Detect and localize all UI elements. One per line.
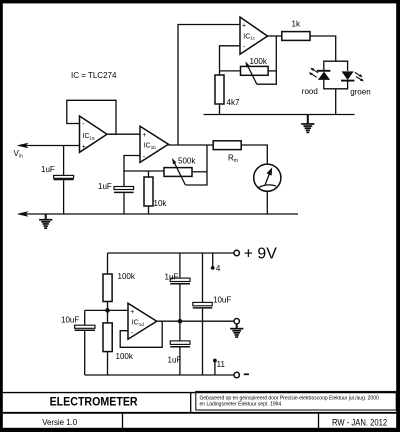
wire IC1b output line bbox=[168, 144, 213, 146]
capacitor 10uF left plates bbox=[75, 325, 95, 330]
wire 1uF lower top lead bbox=[179, 321, 181, 341]
versie cell divider bbox=[122, 413, 124, 428]
top ground rail bbox=[204, 114, 355, 116]
wire IC1b - input to feedback node bbox=[124, 156, 164, 172]
capacitor 1uF lower plates bbox=[170, 341, 190, 347]
svg-text:Versie 1.0: Versie 1.0 bbox=[42, 417, 77, 427]
wire 10k bottom lead bbox=[148, 206, 150, 214]
wire LED block to ground rail bbox=[335, 89, 337, 115]
capacitor C1 1uF plates bbox=[54, 175, 74, 179]
wire Rm to meter bbox=[241, 145, 267, 164]
wire Vin to IC1a + input bbox=[25, 145, 80, 147]
potentiometer 100k wiper arrow bbox=[245, 61, 256, 84]
LED groen emission arrows bbox=[355, 72, 364, 81]
svg-text:1k: 1k bbox=[292, 20, 301, 29]
op-amp IC1b bbox=[140, 126, 168, 162]
svg-text:10uF: 10uF bbox=[61, 316, 79, 325]
wire node to 100k pot left bbox=[220, 70, 241, 72]
note box bbox=[196, 391, 396, 410]
wire 4k7 bottom lead bbox=[219, 104, 221, 115]
negative terminal circle bbox=[234, 372, 239, 377]
ground symbol left bbox=[39, 214, 52, 229]
svg-text:+: + bbox=[130, 309, 134, 316]
svg-text:+ 9V: + 9V bbox=[244, 246, 277, 263]
wire Vref node to IC1d + input bbox=[85, 309, 128, 311]
wire IC1a output to IC1b + input bbox=[107, 133, 140, 135]
meter M1 bbox=[254, 164, 281, 191]
wire 10uF right bottom lead bbox=[202, 309, 204, 375]
capacitor 10uF right plates bbox=[193, 302, 212, 308]
titleblock cell divider vertical bbox=[190, 393, 192, 413]
svg-text:10uF: 10uF bbox=[213, 295, 231, 304]
wire IC1d feedback loop bbox=[120, 321, 162, 347]
wire 1uF C2 top lead bbox=[123, 171, 125, 187]
label minus bbox=[244, 373, 249, 375]
pin 11 stub bbox=[213, 359, 217, 375]
date cell divider bbox=[318, 413, 320, 428]
svg-text:1uF: 1uF bbox=[98, 182, 112, 191]
resistor 100k upper bbox=[103, 274, 112, 302]
op-amp IC1c bbox=[240, 17, 268, 54]
svg-text:11: 11 bbox=[217, 360, 226, 369]
resistor 10k bbox=[144, 177, 153, 206]
wire 10uF left top lead bbox=[84, 310, 86, 325]
ground rail terminal arrow bbox=[18, 212, 28, 216]
+9V terminal circle bbox=[234, 250, 239, 255]
LED groen (green, cathode down) bbox=[341, 71, 354, 80]
svg-text:1uF: 1uF bbox=[41, 165, 55, 174]
border frame bbox=[0, 0, 400, 3]
op-amp IC1a bbox=[80, 116, 108, 152]
wire wiper to output branch bbox=[257, 36, 277, 84]
svg-text:1uF: 1uF bbox=[165, 272, 179, 281]
resistor 1k bbox=[282, 32, 310, 41]
node Vref junction dot bbox=[105, 308, 110, 313]
resistor 4k7 bbox=[215, 75, 224, 104]
negative supply rail bbox=[85, 374, 234, 376]
node virtual ground junction dot bbox=[178, 319, 183, 324]
wire 1uF C1 bottom lead bbox=[63, 180, 65, 214]
input terminal arrow Vin bbox=[18, 143, 28, 147]
wire 10uF left bottom lead bbox=[84, 331, 86, 375]
virtual ground terminal circle bbox=[234, 319, 239, 324]
svg-text:100k: 100k bbox=[116, 352, 134, 361]
LED rood emission arrows bbox=[309, 68, 318, 78]
LED block frame bbox=[324, 61, 348, 89]
wire 500k right terminal bbox=[192, 171, 207, 173]
wire 100k right terminal bbox=[268, 70, 276, 72]
svg-text:+: + bbox=[142, 132, 146, 139]
capacitor 1uF upper plates bbox=[170, 278, 190, 284]
svg-text:10k: 10k bbox=[154, 199, 168, 208]
wire 1k to LED block bbox=[310, 36, 336, 61]
svg-text:groen: groen bbox=[350, 87, 370, 96]
wire 10k top lead bbox=[148, 171, 150, 177]
svg-text:IC = TLC274: IC = TLC274 bbox=[71, 71, 117, 80]
wire 1uF upper bottom lead bbox=[179, 284, 181, 321]
svg-text:100k: 100k bbox=[118, 272, 136, 281]
wire 10uF right top lead bbox=[202, 253, 204, 303]
wire IC1d output virtual ground line bbox=[157, 320, 234, 322]
svg-text:RW - JAN. 2012: RW - JAN. 2012 bbox=[332, 417, 387, 428]
svg-text:100k: 100k bbox=[250, 57, 268, 66]
wire IC1c - input to 4k7 node bbox=[220, 46, 241, 75]
wire 1uF top lead from rail bbox=[179, 253, 181, 278]
wire 100k upper bottom lead bbox=[107, 302, 109, 311]
svg-text:+: + bbox=[242, 23, 246, 30]
wire 1uF C2 bottom lead bbox=[123, 193, 125, 214]
wire IC1c output to 1k bbox=[268, 35, 282, 37]
wire 1uF C1 top lead bbox=[63, 146, 65, 176]
ground rail wire bbox=[25, 213, 298, 215]
svg-text:500k: 500k bbox=[178, 157, 196, 166]
ground symbol virtual ground bbox=[230, 324, 243, 338]
svg-text:ELECTROMETER: ELECTROMETER bbox=[50, 394, 138, 408]
resistor Rm bbox=[213, 141, 241, 150]
potentiometer 100k body bbox=[241, 66, 269, 75]
wire 1uF lower bottom lead bbox=[179, 348, 181, 376]
potentiometer 500k wiper arrow bbox=[172, 158, 185, 185]
ground symbol top bbox=[301, 115, 314, 134]
wire 500k wiper to output branch bbox=[185, 145, 207, 185]
titleblock top line bbox=[3, 392, 396, 394]
wire IC1a feedback loop bbox=[67, 100, 116, 134]
svg-text:+: + bbox=[82, 144, 86, 151]
resistor 100k lower bbox=[103, 323, 112, 352]
op-amp IC1d bbox=[128, 303, 157, 339]
svg-text:rood: rood bbox=[302, 87, 318, 96]
svg-text:4: 4 bbox=[216, 264, 221, 273]
svg-text:Gebaseerd op en geinspireerd d: Gebaseerd op en geinspireerd door Precis… bbox=[200, 395, 379, 401]
wire 100k lower bottom lead bbox=[107, 352, 109, 375]
wire IC1b output up to IC1c + input bbox=[178, 25, 240, 146]
capacitor C2 1uF plates bbox=[114, 187, 134, 193]
svg-text:4k7: 4k7 bbox=[227, 98, 240, 107]
wire 100k lower top lead bbox=[107, 310, 109, 323]
wire meter to ground rail bbox=[266, 191, 268, 214]
svg-text:en Ladingsmeter Elektuur sept.: en Ladingsmeter Elektuur sept. 1994 bbox=[200, 402, 282, 408]
potentiometer 500k body bbox=[164, 168, 192, 177]
titleblock row separator bbox=[3, 412, 396, 414]
wire 100k upper top lead bbox=[107, 253, 109, 274]
LED rood (red, cathode up) bbox=[317, 71, 330, 81]
+9V supply rail bbox=[108, 252, 235, 254]
pin 4 stub bbox=[211, 253, 215, 270]
